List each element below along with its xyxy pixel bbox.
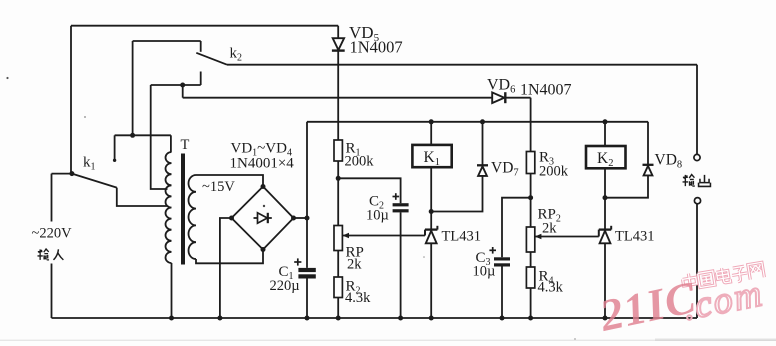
label VD7 bbox=[491, 160, 519, 179]
capacitor C3 10u plates bbox=[494, 257, 510, 266]
wire secondary top lead to bridge AC1 bbox=[196, 175, 263, 187]
node bridge bottom corner bbox=[261, 247, 266, 252]
node junction TL431 U1 anode / ground bus bbox=[429, 316, 434, 321]
node bridge right corner bbox=[291, 216, 296, 221]
node junction bus / K2 bbox=[603, 119, 608, 124]
resistor R2 4.3k bbox=[334, 277, 342, 298]
node junction C1 / ground bus bbox=[305, 316, 310, 321]
node junction R1 / C2 / RP1 bbox=[336, 176, 341, 181]
bridge internal diode symbol bbox=[254, 213, 272, 223]
wire left vertical live input to k1 pivot bbox=[70, 26, 72, 174]
label 10u for C2 bbox=[366, 208, 389, 224]
label R3 bbox=[539, 150, 554, 168]
wire R1 bottom to RP1 top bbox=[337, 161, 339, 226]
node bridge top corner bbox=[261, 184, 266, 189]
label 200k for R3 bbox=[539, 164, 569, 180]
resistor R1 200k bbox=[334, 140, 342, 161]
wire primary bottom lead to ground bus bbox=[171, 263, 173, 318]
wire output minus to ground bus bbox=[696, 204, 698, 318]
svg-text:2k: 2k bbox=[542, 221, 557, 237]
node junction primary bottom / ground bus bbox=[169, 316, 174, 321]
switch k2 blade bbox=[196, 53, 227, 65]
wire k1 blade to transformer tap 2 bbox=[117, 188, 168, 206]
wire bottom ground bus bbox=[52, 317, 698, 319]
label R2 bbox=[346, 279, 361, 297]
node bridge left corner bbox=[229, 216, 234, 221]
node junction bus / VD7 bbox=[480, 119, 485, 124]
svg-text:2k: 2k bbox=[347, 257, 362, 273]
diode VD5 symbol bbox=[332, 38, 345, 50]
wire k2 lower throw line bbox=[151, 84, 201, 86]
label C2 bbox=[369, 194, 384, 212]
wire secondary bottom lead to bridge AC2 bbox=[196, 250, 263, 263]
switch k1 blade bbox=[72, 174, 117, 188]
capacitor C2 10u plates bbox=[393, 203, 409, 212]
shunt regulator TL431 U1 cathode-anode bbox=[430, 230, 432, 318]
label RP bbox=[346, 245, 364, 261]
resistor R4 4.3k bbox=[526, 267, 534, 288]
watermark 中国电子网 bbox=[682, 261, 765, 291]
node junction on k2 lower throw line bbox=[180, 83, 185, 88]
label 1N4001x4 bbox=[230, 156, 295, 172]
label K2 bbox=[597, 150, 613, 169]
label VD1~VD4 bbox=[231, 141, 292, 159]
label VD6 bbox=[487, 77, 515, 96]
label TL431 first bbox=[442, 229, 481, 245]
shunt regulator TL431 U1 symbol bbox=[425, 226, 437, 244]
wire K1 coil bottom to TL431 cathode bbox=[430, 167, 432, 229]
svg-text:4.3k: 4.3k bbox=[538, 280, 564, 296]
label C3 bbox=[476, 250, 491, 268]
label RP2 bbox=[538, 207, 561, 225]
wire R4 bottom to ground bus bbox=[530, 288, 532, 318]
svg-text:220µ: 220µ bbox=[270, 278, 300, 294]
wire bridge negative to ground bus bbox=[220, 218, 232, 318]
label C1 bbox=[279, 264, 294, 282]
wire C3 bottom to ground bus bbox=[501, 267, 503, 319]
diode VD7 flyback bbox=[431, 122, 482, 212]
svg-text:~220V: ~220V bbox=[32, 226, 73, 242]
wire bus to K2 coil top bbox=[604, 122, 606, 146]
wire VD6 output down to R3 bbox=[530, 98, 532, 152]
label K1 bbox=[424, 149, 440, 168]
output terminal plus bbox=[694, 154, 700, 160]
wire primary top lead bbox=[170, 135, 172, 152]
wire vertical from k2 rail down to k1 contact line bbox=[132, 41, 134, 135]
capacitor C3 polarity plus bbox=[489, 247, 496, 254]
label k2 bbox=[230, 46, 243, 64]
wire bridge positive to C1 rail bbox=[294, 217, 308, 219]
svg-text:4.3k: 4.3k bbox=[345, 290, 371, 306]
node junction k2-rail / k1 contact line bbox=[130, 133, 135, 138]
transformer T secondary winding bbox=[188, 175, 196, 259]
label VD5 bbox=[349, 23, 380, 44]
wire from k2 lower throw to transformer tap 1 bbox=[151, 85, 168, 189]
wire RP2 bottom to R4 top bbox=[530, 252, 532, 267]
node junction bus / K1 bbox=[429, 119, 434, 124]
node junction R3 / C3 / RP2 bbox=[528, 195, 533, 200]
switch k2 lower throw stub bbox=[200, 72, 202, 86]
potentiometer RP2 wiper line to TL431 ref bbox=[535, 234, 599, 240]
label 2k for RP2 bbox=[542, 221, 557, 237]
node junction bridge positive / C1 vertical bbox=[305, 216, 310, 221]
wire RP1 bottom to R2 top bbox=[337, 251, 339, 278]
wire R3 bottom to RP2 top bbox=[530, 174, 532, 228]
label T bbox=[181, 137, 190, 153]
wire K2 coil bottom to TL431 cathode bbox=[604, 168, 606, 229]
label 220u bbox=[270, 278, 300, 294]
node junction K2 / VD8 bottom bbox=[603, 195, 608, 200]
label VD8 bbox=[655, 152, 683, 171]
shunt regulator TL431 U2 cathode-anode bbox=[604, 230, 606, 318]
svg-text:200k: 200k bbox=[539, 164, 569, 180]
node junction K1 / VD7 bottom bbox=[429, 209, 434, 214]
wire junction to C2 top bbox=[338, 178, 400, 203]
svg-text:TL431: TL431 bbox=[442, 229, 481, 245]
scan speckles bbox=[6, 77, 575, 340]
potentiometer RP1 2k body bbox=[334, 226, 342, 251]
node junction R4 / ground bus bbox=[528, 316, 533, 321]
wire top rail from input live to VD5 bbox=[71, 25, 338, 27]
label 200k for R1 bbox=[345, 154, 375, 170]
relay coil K2 box bbox=[586, 146, 626, 168]
svg-text:10µ: 10µ bbox=[473, 264, 496, 280]
shunt regulator TL431 U2 symbol bbox=[599, 226, 611, 244]
svg-text:TL431: TL431 bbox=[615, 229, 654, 245]
svg-text:200k: 200k bbox=[345, 154, 375, 170]
wire C1 positive vertical up to bus bbox=[306, 122, 308, 268]
label shu-ru (input) char 入 bbox=[53, 249, 63, 260]
wire bus to K1 coil top bbox=[430, 122, 432, 145]
svg-text:1N4001×4: 1N4001×4 bbox=[230, 156, 295, 172]
transformer T primary winding bbox=[165, 152, 171, 263]
wire R2 bottom to ground bus bbox=[337, 298, 339, 319]
diode VD6 symbol bbox=[492, 92, 505, 103]
transformer T core bbox=[181, 154, 185, 265]
wire junction to C3 top bbox=[502, 198, 531, 258]
svg-text:1N4007: 1N4007 bbox=[520, 82, 572, 99]
label 10u for C3 bbox=[473, 264, 496, 280]
wire C1 bottom to ground bus bbox=[306, 279, 308, 319]
relay coil K1 box bbox=[412, 145, 451, 167]
label 2k for RP bbox=[347, 257, 362, 273]
wire left input down (gap behind input label) bbox=[51, 174, 53, 318]
label k1 bbox=[83, 155, 96, 173]
wire input stub to k1 junction bbox=[52, 173, 72, 175]
svg-text:~15V: ~15V bbox=[202, 179, 235, 195]
wire k2 pivot rail bbox=[133, 41, 201, 52]
wire drop from junction to VD6 line bbox=[182, 85, 184, 98]
diode VD5 1N4007 vertical branch (through to R1) bbox=[337, 26, 339, 140]
diode VD8 symbol bbox=[643, 165, 654, 176]
label ~15V bbox=[202, 179, 235, 195]
label shu-chu (output) char 输 bbox=[683, 175, 695, 187]
diode VD7 symbol bbox=[477, 165, 488, 176]
svg-text:T: T bbox=[181, 137, 190, 153]
svg-text:10µ: 10µ bbox=[366, 208, 389, 224]
wire k2 output line to output terminal bbox=[227, 64, 697, 66]
wire right vertical to output terminal + bbox=[696, 65, 698, 155]
label R1 bbox=[346, 141, 361, 159]
wire VD6 line bbox=[183, 97, 531, 99]
capacitor C1 220u plates bbox=[298, 268, 315, 279]
bridge rectifier VD1-VD4 diamond bbox=[232, 187, 294, 250]
label shu-chu (output) char 出 bbox=[699, 175, 711, 187]
capacitor C2 polarity plus bbox=[393, 193, 400, 200]
node junction C2 / ground bus bbox=[398, 316, 403, 321]
wire positive supply bus bbox=[307, 121, 648, 123]
diode VD8 flyback bbox=[605, 122, 648, 198]
node junction input live / k1 bbox=[69, 171, 74, 176]
potentiometer RP2 2k body bbox=[526, 227, 534, 252]
switch k1 fixed contact line to primary top bbox=[115, 134, 171, 136]
label TL431 second bbox=[615, 229, 654, 245]
label ~220V bbox=[32, 226, 73, 242]
node junction R2 / ground bus bbox=[336, 316, 341, 321]
label 1N4007 for VD5 bbox=[350, 38, 403, 57]
scan bottom edge smear bbox=[0, 338, 776, 341]
capacitor C1 polarity plus bbox=[294, 258, 301, 265]
output terminal minus bbox=[694, 198, 700, 204]
label shu-ru (input) char 输 bbox=[37, 249, 49, 260]
node junction TL431 U2 anode / ground bus bbox=[603, 316, 608, 321]
label 1N4007 for VD6 bbox=[520, 82, 572, 99]
resistor R3 200k bbox=[526, 152, 534, 174]
wire C2 bottom to ground bus bbox=[400, 212, 402, 318]
node junction C3 / ground bus bbox=[500, 316, 505, 321]
potentiometer RP1 wiper line to TL431 ref bbox=[342, 233, 425, 239]
label 4.3k for R2 bbox=[345, 290, 371, 306]
label R4 bbox=[539, 269, 554, 287]
switch k1 fixed contact stub bbox=[113, 135, 116, 162]
svg-text:1N4007: 1N4007 bbox=[350, 38, 403, 57]
label 4.3k for R4 bbox=[538, 280, 564, 296]
node junction bridge negative / ground bus bbox=[217, 316, 222, 321]
